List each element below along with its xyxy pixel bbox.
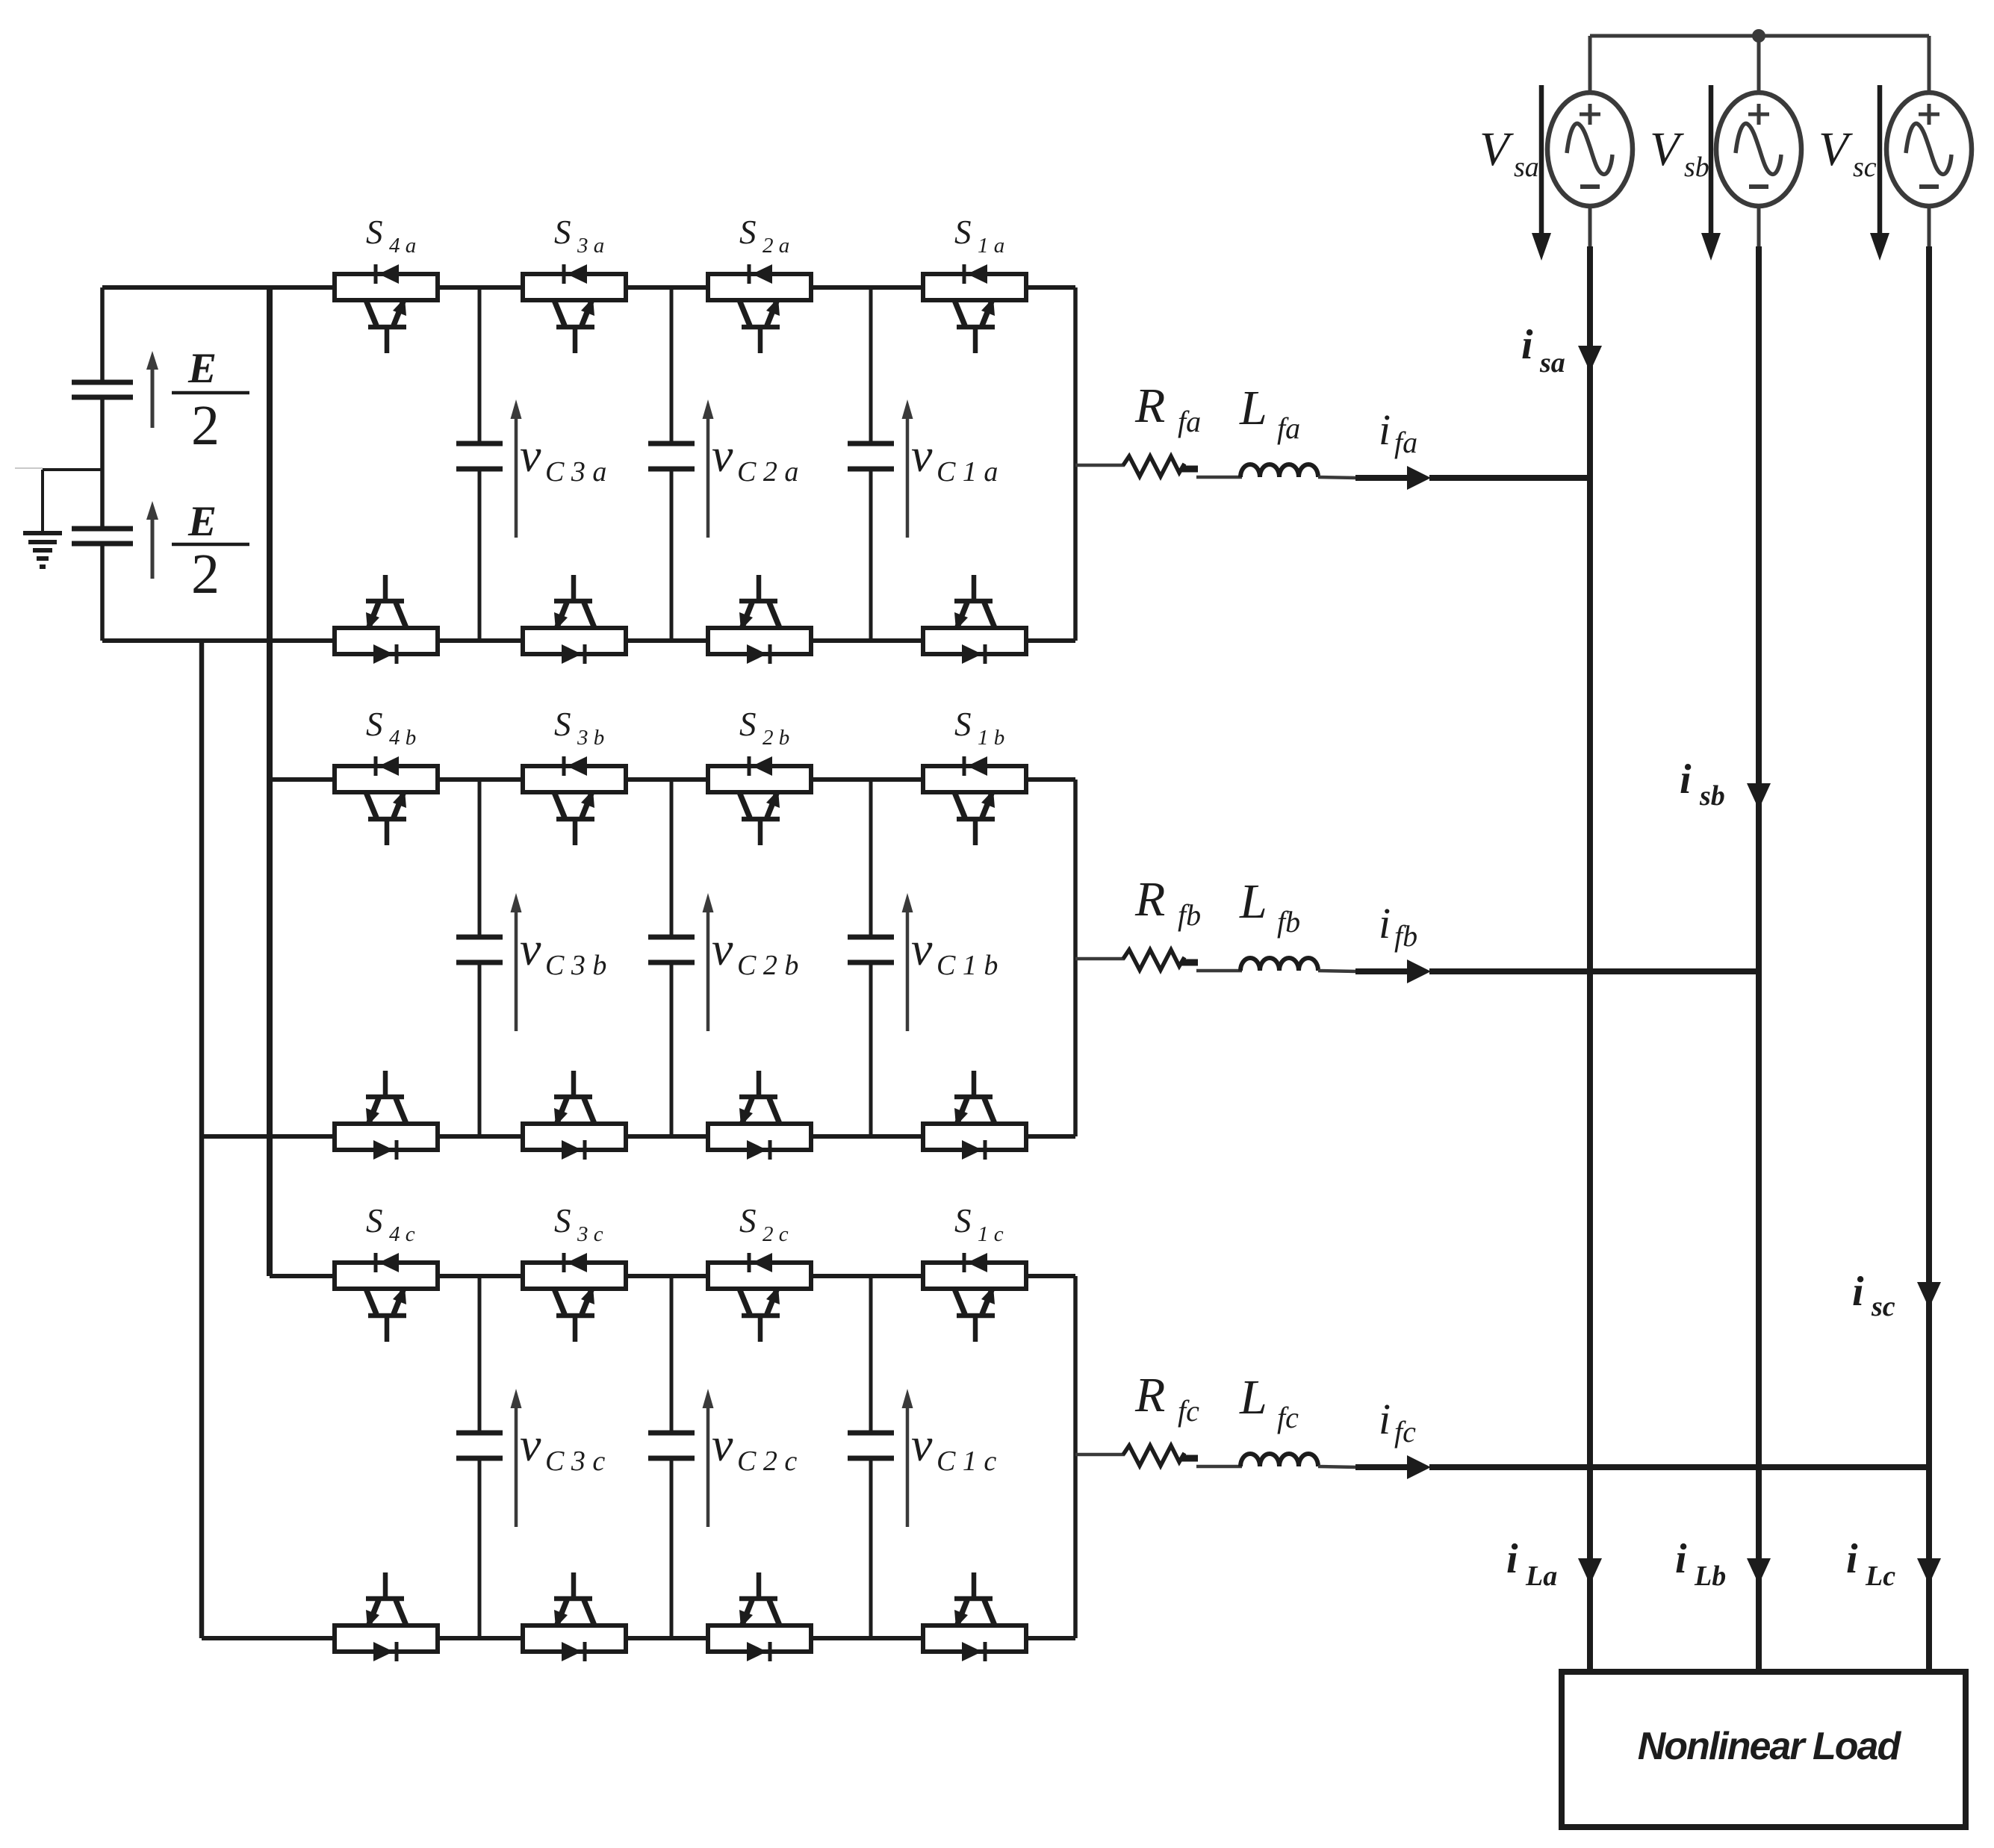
svg-text:S: S [366,706,383,743]
svg-text:V: V [1818,122,1853,176]
svg-text:1 c: 1 c [978,1222,1004,1246]
svg-text:i: i [1506,1536,1518,1582]
svg-text:v: v [712,1418,733,1471]
svg-text:1 b: 1 b [978,726,1004,750]
svg-text:sc: sc [1853,152,1877,183]
svg-text:C 3 c: C 3 c [545,1446,605,1477]
svg-text:i: i [1680,756,1692,803]
svg-text:R: R [1134,379,1165,433]
svg-text:4 a: 4 a [389,234,416,258]
svg-text:S: S [954,706,972,743]
svg-text:fc: fc [1394,1415,1416,1449]
svg-text:R: R [1134,872,1165,927]
svg-text:3 a: 3 a [577,234,604,258]
svg-text:S: S [954,1202,972,1239]
svg-text:v: v [520,922,541,975]
svg-text:2: 2 [191,394,220,457]
svg-text:i: i [1379,405,1391,454]
svg-text:3 c: 3 c [577,1222,603,1246]
svg-text:L: L [1239,381,1267,435]
svg-text:4 c: 4 c [389,1222,415,1246]
svg-text:fb: fb [1178,898,1201,932]
svg-text:fa: fa [1178,405,1201,438]
svg-text:2: 2 [191,543,220,606]
svg-text:v: v [911,429,933,482]
svg-text:C 2 c: C 2 c [737,1446,797,1477]
svg-text:sb: sb [1699,780,1725,812]
svg-text:v: v [911,922,933,975]
svg-text:sc: sc [1871,1291,1895,1322]
svg-text:4 b: 4 b [389,726,416,750]
svg-text:V: V [1479,122,1514,176]
svg-text:La: La [1525,1561,1557,1592]
svg-text:3 b: 3 b [577,726,604,750]
svg-text:C 1 a: C 1 a [937,456,998,488]
svg-text:2 a: 2 a [762,234,789,258]
svg-text:sa: sa [1539,347,1565,379]
svg-text:L: L [1239,1370,1267,1425]
svg-text:fc: fc [1277,1401,1299,1434]
svg-text:C 2 b: C 2 b [737,950,798,981]
svg-text:fc: fc [1178,1394,1199,1428]
svg-text:S: S [554,1202,571,1239]
svg-text:v: v [712,429,733,482]
svg-text:i: i [1521,322,1533,368]
svg-text:Lb: Lb [1694,1561,1726,1592]
svg-text:i: i [1846,1536,1858,1582]
svg-text:S: S [554,214,571,251]
svg-text:fa: fa [1394,426,1417,459]
svg-text:v: v [520,429,541,482]
svg-text:fa: fa [1277,411,1300,445]
svg-text:S: S [366,214,383,251]
svg-text:C 1 c: C 1 c [937,1446,996,1477]
svg-text:Nonlinear Load: Nonlinear Load [1638,1725,1902,1768]
svg-text:C 1 b: C 1 b [937,950,998,981]
svg-text:V: V [1650,122,1684,176]
svg-text:R: R [1134,1368,1165,1422]
svg-text:fb: fb [1277,905,1300,939]
svg-text:fb: fb [1394,919,1417,953]
svg-text:i: i [1379,1395,1391,1443]
svg-text:Lc: Lc [1865,1561,1895,1592]
svg-text:L: L [1239,874,1267,929]
svg-text:S: S [739,706,757,743]
svg-text:sa: sa [1514,152,1539,183]
svg-text:i: i [1379,899,1391,948]
svg-text:2 c: 2 c [762,1222,789,1246]
svg-text:S: S [739,1202,757,1239]
svg-text:sb: sb [1684,152,1709,183]
svg-text:S: S [366,1202,383,1239]
svg-text:C 3 a: C 3 a [545,456,606,488]
svg-text:S: S [954,214,972,251]
svg-text:C 2 a: C 2 a [737,456,798,488]
svg-text:E: E [187,498,217,545]
svg-text:i: i [1675,1536,1687,1582]
svg-text:1 a: 1 a [978,234,1004,258]
svg-text:C 3 b: C 3 b [545,950,606,981]
svg-text:2 b: 2 b [762,726,789,750]
svg-text:E: E [187,345,217,392]
svg-text:i: i [1852,1269,1864,1315]
svg-text:S: S [554,706,571,743]
svg-text:v: v [712,922,733,975]
svg-text:v: v [520,1418,541,1471]
svg-text:S: S [739,214,757,251]
svg-text:v: v [911,1418,933,1471]
